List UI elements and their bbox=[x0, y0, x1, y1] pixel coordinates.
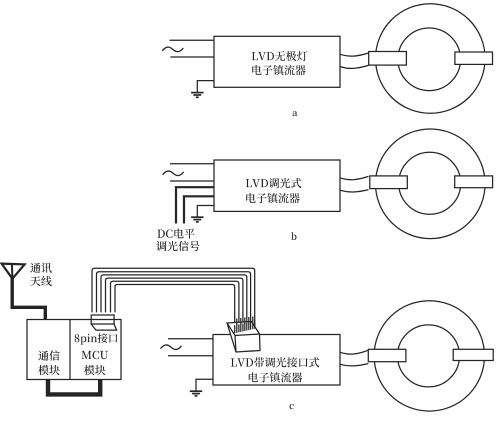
ground symbol (section b) bbox=[191, 217, 203, 222]
output wire bottom (b to lamp b) bbox=[340, 190, 369, 192]
bundle wire 3 (8pin cable) bbox=[101, 275, 247, 331]
ballast box c: LVD with dimming interface electronic ballast bbox=[213, 335, 340, 386]
output wire bottom (c to lamp c) bbox=[340, 364, 368, 366]
label "通讯" bbox=[30, 263, 51, 273]
wire AC line N (section c) bbox=[168, 355, 213, 357]
label "电子镇流器" bbox=[252, 65, 305, 75]
ground wire (section b) bbox=[197, 206, 214, 217]
lamp c left coupler bbox=[368, 349, 406, 361]
lamp c outer ring bbox=[374, 301, 484, 411]
label "通信" bbox=[38, 350, 59, 360]
ground symbol (section c) bbox=[190, 391, 202, 396]
connector 3D top face edges bbox=[227, 323, 260, 352]
label "LVD调光式" bbox=[246, 178, 301, 188]
wire AC line L (section b) bbox=[170, 163, 214, 165]
label "调光信号" bbox=[156, 241, 199, 251]
bundle wire 1 (8pin cable) bbox=[92, 268, 255, 329]
label "8pin接口" bbox=[75, 333, 118, 345]
lamp a left coupler bbox=[369, 52, 407, 66]
8pin connector on MCU module: front flap bbox=[91, 324, 116, 330]
dimming interface connector 3D body on ballast c bbox=[227, 322, 260, 353]
wire AC line L (section c) bbox=[168, 338, 213, 340]
DC dimming signal wire 1 (thick) bbox=[176, 187, 214, 223]
antenna stem through triangle bbox=[11, 264, 14, 279]
output wire top (c to lamp c) bbox=[340, 350, 368, 354]
antenna feed line (thick) to module box bbox=[12, 277, 45, 320]
lamp b inner ring bbox=[399, 152, 461, 214]
thick link between module bottoms bbox=[48, 380, 100, 395]
bundle wire 6 (8pin cable) bbox=[115, 285, 235, 334]
lamp b outer ring bbox=[376, 129, 486, 239]
DC dimming signal wire 2 (thick) bbox=[184, 196, 214, 223]
bundle wire 5 (8pin cable) bbox=[111, 281, 239, 332]
antenna triangle (communication antenna) bbox=[2, 264, 25, 279]
label "c" bbox=[290, 404, 294, 409]
AC source tilde symbol (section b) bbox=[163, 171, 184, 175]
lamp a outer ring bbox=[376, 4, 486, 114]
label "天线" bbox=[30, 276, 51, 286]
output wire bottom (a to lamp a) bbox=[340, 65, 369, 68]
bundle wire 4 (8pin cable) bbox=[106, 278, 243, 331]
label "b" bbox=[291, 232, 296, 240]
lamp a inner ring bbox=[398, 28, 461, 91]
ballast box a: LVD electrodeless lamp electronic ballast bbox=[214, 36, 340, 87]
ground wire (section c) bbox=[196, 379, 213, 391]
label "LVD无极灯" bbox=[252, 51, 308, 61]
ground wire (section a) bbox=[197, 81, 214, 93]
lamp c right coupler bbox=[453, 349, 493, 360]
label "a" bbox=[293, 111, 298, 116]
label "MCU" bbox=[82, 351, 109, 359]
ground symbol (section a) bbox=[191, 93, 203, 98]
wire AC line N (section b) bbox=[170, 180, 214, 182]
bundle wire 2 (8pin cable) bbox=[97, 272, 251, 330]
label "模块" bbox=[38, 365, 59, 375]
module box (communication module + MCU module) bbox=[27, 320, 121, 380]
8pin connector on MCU module: body bbox=[91, 315, 114, 324]
connector pins bbox=[254, 321, 256, 329]
wire AC line N (section a) bbox=[170, 56, 214, 58]
label "电子镇流器" bbox=[249, 372, 302, 382]
lamp b left coupler bbox=[370, 176, 408, 189]
output wire top (b to lamp b) bbox=[340, 176, 369, 179]
lamp a right coupler bbox=[455, 52, 493, 64]
lamp c inner ring bbox=[398, 325, 460, 387]
label "DC电平" bbox=[157, 228, 194, 238]
label "模块" bbox=[84, 365, 105, 375]
module box divider bbox=[69, 320, 71, 380]
label "LVD带调光接口式" bbox=[231, 357, 319, 367]
output wire top (a to lamp a) bbox=[340, 53, 369, 56]
wire AC line L (section a) bbox=[170, 39, 214, 41]
label "电子镇流器" bbox=[246, 193, 299, 203]
lamp b right coupler bbox=[455, 176, 493, 188]
AC source tilde symbol (section a) bbox=[162, 47, 183, 51]
ballast box b: LVD dimming type electronic ballast bbox=[214, 160, 340, 211]
AC source tilde symbol (section c) bbox=[161, 345, 182, 349]
